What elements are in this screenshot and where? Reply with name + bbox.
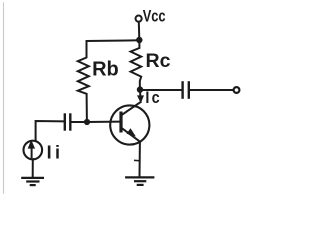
output terminal (open circle) [234, 87, 240, 93]
wire: input capacitor to base node [71, 121, 87, 123]
ground (emitter) [126, 177, 153, 185]
node: collector junction [137, 86, 143, 92]
node: base junction [84, 119, 90, 125]
current source Ii [24, 140, 43, 160]
svg-text:Rb: Rb [92, 59, 119, 81]
emitter lead with arrow [122, 128, 140, 141]
transistor Q1 (NPN) [110, 90, 149, 145]
capacitor C1 (input coupling) [65, 115, 71, 130]
svg-text:Vcc: Vcc [143, 8, 166, 26]
power terminal Vcc [136, 16, 142, 22]
svg-text:I i: I i [47, 142, 60, 162]
wire: output capacitor to output terminal [190, 89, 234, 91]
wire: collector junction to output capacitor [140, 89, 182, 91]
resistor Rc [131, 41, 142, 90]
svg-text:Rc: Rc [146, 50, 171, 72]
wire: base node to transistor base [87, 121, 119, 123]
ground (current source) [22, 178, 43, 185]
scan artifact: faint left edge line [3, 3, 5, 193]
wire: Vcc terminal down to top junction [138, 22, 141, 40]
resistor Rb [78, 41, 89, 122]
wire: emitter down to ground [139, 142, 141, 177]
wire: top rail from junction to Rb top [87, 39, 140, 42]
collector lead with Ic current arrow [139, 90, 141, 96]
capacitor C2 (output coupling) [183, 82, 189, 97]
node: top junction (Vcc rail) [136, 37, 142, 43]
svg-text:Ic: Ic [145, 89, 161, 107]
scan artifact tick on emitter wire [135, 159, 139, 161]
wire: current source to ground [32, 159, 34, 177]
wire: source corner to input capacitor [36, 121, 64, 141]
